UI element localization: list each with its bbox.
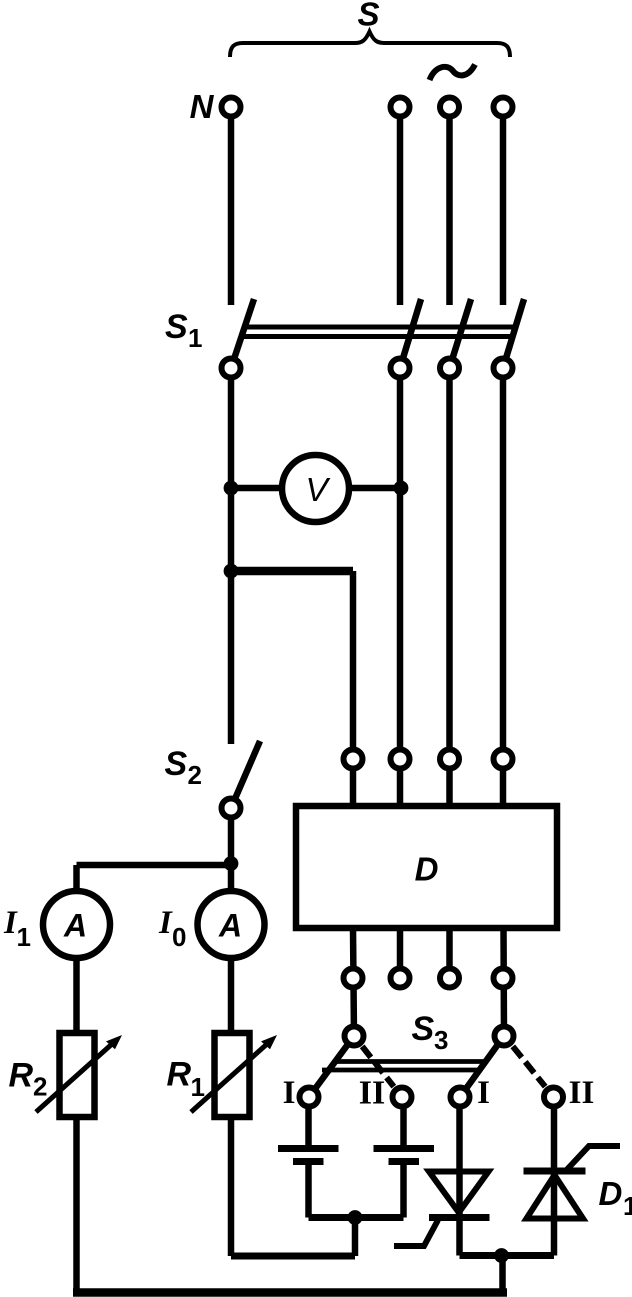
svg-text:S: S xyxy=(412,1010,435,1048)
svg-text:I: I xyxy=(477,1075,490,1111)
svg-text:II: II xyxy=(569,1075,595,1111)
svg-text:0: 0 xyxy=(172,922,186,952)
svg-text:V: V xyxy=(306,472,331,509)
svg-text:S: S xyxy=(165,308,188,346)
svg-text:R: R xyxy=(167,1056,192,1094)
svg-text:S: S xyxy=(165,745,188,783)
svg-text:D: D xyxy=(415,851,439,888)
svg-text:R: R xyxy=(9,1057,34,1095)
svg-text:1: 1 xyxy=(191,1072,205,1102)
svg-text:3: 3 xyxy=(434,1025,448,1055)
svg-text:1: 1 xyxy=(17,922,31,952)
svg-text:II: II xyxy=(359,1075,385,1112)
svg-text:A: A xyxy=(63,908,87,944)
svg-text:2: 2 xyxy=(188,760,202,790)
svg-text:I: I xyxy=(158,905,173,941)
svg-text:N: N xyxy=(190,88,215,125)
svg-text:S: S xyxy=(357,0,379,33)
svg-text:A: A xyxy=(218,908,242,944)
svg-text:1: 1 xyxy=(623,1191,632,1221)
svg-text:I: I xyxy=(283,1075,296,1111)
svg-text:D: D xyxy=(599,1175,623,1212)
svg-text:1: 1 xyxy=(188,323,202,353)
svg-text:2: 2 xyxy=(33,1072,47,1102)
